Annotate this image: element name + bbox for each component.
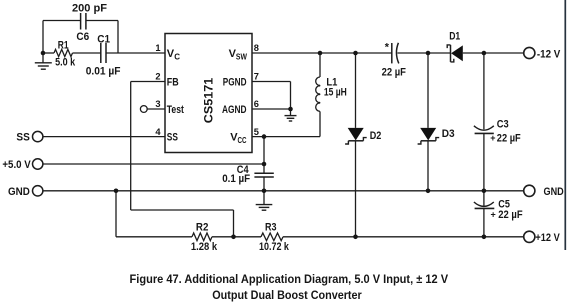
svg-text:SW: SW [236,53,247,62]
svg-text:R1: R1 [58,39,69,51]
svg-text:+12 V: +12 V [535,232,560,244]
svg-text:1: 1 [155,43,160,53]
svg-text:CC: CC [238,136,247,145]
svg-text:Test: Test [167,104,184,116]
svg-text:SS: SS [16,131,29,143]
svg-text:C6: C6 [76,31,89,43]
svg-text:10.72 k: 10.72 k [259,241,290,253]
svg-text:6: 6 [254,99,259,109]
svg-text:R2: R2 [196,222,209,234]
svg-text:3: 3 [155,99,160,109]
svg-text:Output Dual Boost Converter: Output Dual Boost Converter [212,290,362,302]
svg-text:+: + [490,133,495,143]
svg-text:D1: D1 [449,31,460,43]
svg-text:7: 7 [254,72,259,82]
svg-text:200 pF: 200 pF [72,3,107,15]
svg-text:D2: D2 [370,130,382,142]
svg-text:C: C [174,53,180,62]
svg-text:8: 8 [254,43,259,53]
svg-text:1.28 k: 1.28 k [191,241,218,253]
svg-text:Figure 47. Additional Applicat: Figure 47. Additional Application Diagra… [130,274,449,286]
svg-text:5: 5 [254,127,259,137]
svg-text:C3: C3 [497,119,509,131]
svg-text:22 µF: 22 µF [498,209,523,221]
svg-text:C1: C1 [97,33,110,45]
svg-text:GND: GND [8,186,30,198]
svg-text:0.1 µF: 0.1 µF [222,173,250,185]
svg-text:AGND: AGND [222,104,247,116]
svg-text:-12 V: -12 V [537,48,561,60]
svg-text:+5.0 V: +5.0 V [2,159,31,171]
svg-text:R3: R3 [265,222,277,234]
svg-text:5.0 k: 5.0 k [55,57,76,69]
svg-text:D3: D3 [442,128,455,140]
svg-text:2: 2 [155,72,160,82]
svg-text:+: + [491,210,496,220]
svg-text:PGND: PGND [223,77,247,89]
svg-text:FB: FB [167,77,179,89]
svg-text:0.01 µF: 0.01 µF [86,66,121,78]
svg-text:CS5171: CS5171 [202,77,216,123]
svg-text:4: 4 [155,127,161,137]
svg-text:GND: GND [544,186,564,198]
svg-text:22 µF: 22 µF [382,66,407,78]
svg-text:15 µH: 15 µH [324,87,347,99]
svg-text:22 µF: 22 µF [497,133,521,145]
svg-text:SS: SS [167,132,178,144]
